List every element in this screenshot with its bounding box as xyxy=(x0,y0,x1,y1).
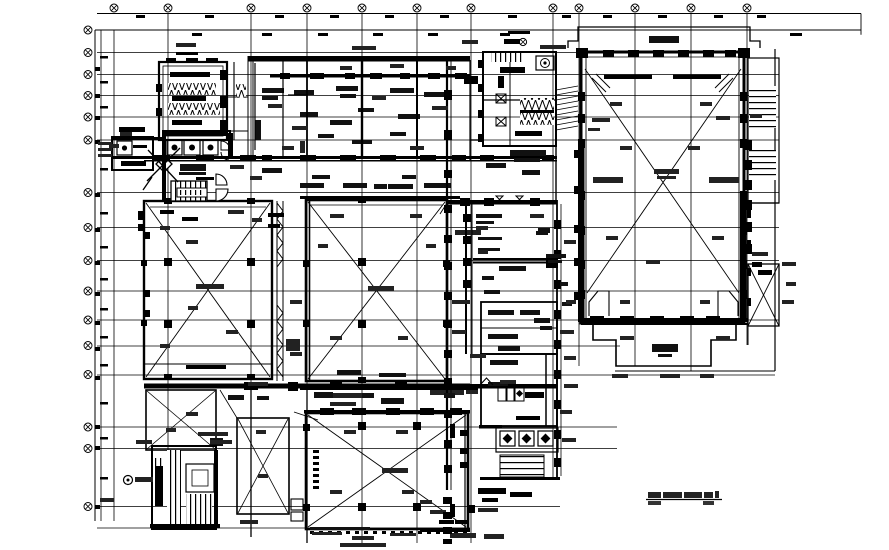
bay below hall xyxy=(593,325,736,366)
label boxes in corridor rooms xyxy=(255,86,444,144)
heavy wall band y156-163 xyxy=(144,155,557,162)
left margin mid dashes xyxy=(100,56,108,480)
hall small labels xyxy=(588,116,739,183)
bottom room top wall band xyxy=(304,408,470,415)
dotted tick row under bottom wall xyxy=(310,531,467,534)
scattered dimension labels upper area xyxy=(98,40,796,547)
bottom room label xyxy=(382,468,408,473)
grid horizontal lines xyxy=(95,30,861,528)
left margin vertical xyxy=(94,30,96,521)
wall x162-166 xyxy=(162,130,166,201)
hall bottom chamfer corners xyxy=(589,291,738,316)
bottom room columns xyxy=(303,422,475,513)
closet row at 498-544,388-401 xyxy=(498,388,524,401)
bottom room bottom dashes xyxy=(420,528,470,532)
hall main walls xyxy=(581,52,744,323)
horizontal double wall y258-263 xyxy=(473,256,558,268)
vertical dotted column x315 xyxy=(313,450,319,489)
left big room walls xyxy=(144,201,272,379)
center big room xyxy=(306,200,447,381)
hall corner braces xyxy=(592,74,733,92)
label box under xyxy=(499,266,526,271)
labels between 163 and 196 xyxy=(262,168,451,189)
X-boxes in core xyxy=(496,94,506,126)
center room columns xyxy=(303,197,450,383)
shaft between rooms xyxy=(272,201,283,381)
stairs right of core (554-578, 86-135) xyxy=(556,86,578,130)
door arcs right of toilets xyxy=(221,141,230,160)
stair hatch below xyxy=(500,455,544,477)
door swings right of stair xyxy=(216,174,228,201)
small boxes row (toilets) at 497-555,428-452 xyxy=(496,428,558,452)
left room X cross xyxy=(146,203,270,377)
left small stair block at 168-207,170-196 xyxy=(171,181,207,201)
fan symbol xyxy=(536,56,554,70)
hall wall column blobs xyxy=(578,92,747,299)
center room X cross xyxy=(308,202,445,379)
hall outer top outline with notches xyxy=(568,27,760,48)
toilet row under block xyxy=(164,131,230,158)
grid circle markers top xyxy=(110,4,751,12)
annex stair rungs xyxy=(749,86,776,128)
left room label xyxy=(196,284,224,289)
left room column squares xyxy=(141,198,284,380)
wall band y196-201 under labels xyxy=(300,196,460,199)
internal walls of top building xyxy=(255,61,417,156)
heavier grid-wall segments bottom xyxy=(251,384,307,543)
hall left/right wall dense strips xyxy=(574,140,751,322)
right wall of middle column xyxy=(557,200,561,480)
title text bottom right xyxy=(646,491,722,505)
walls around left annex xyxy=(112,137,165,159)
door bowties on top wall xyxy=(496,196,523,203)
bottom-left elevator block xyxy=(152,446,216,529)
door swing diagonal at 440-446,203-214 xyxy=(440,203,447,214)
corridor inner details: door/window blobs on inner wall xyxy=(280,73,467,79)
extra small text labels for density xyxy=(160,64,724,494)
X mark near 160,162 xyxy=(143,148,180,190)
connector between stair block and corridor xyxy=(227,62,248,140)
left margin tick marks xyxy=(95,67,100,509)
small X room 1 (left) xyxy=(146,390,216,450)
top wall xyxy=(248,56,470,78)
small left annex rooms xyxy=(112,137,153,170)
toilet cells xyxy=(167,140,218,155)
center room labels xyxy=(322,230,481,406)
right wall inner bars bottom room xyxy=(439,424,469,524)
corridor band labels between center rooms xyxy=(314,370,455,404)
top sub-line and tick dashes xyxy=(97,13,861,15)
left room outside protrusions xyxy=(138,211,150,317)
hall top label box xyxy=(649,36,679,43)
bottom-center big room xyxy=(306,413,468,529)
core area walls to hall xyxy=(470,52,556,200)
annex wall blobs xyxy=(744,140,772,275)
annex X-braced box bottom xyxy=(748,264,779,326)
stair zigzag rows xyxy=(168,83,216,95)
bottom-center room X xyxy=(308,415,466,527)
corner boxes left of bottom room xyxy=(291,499,303,521)
hall bottom wall heavy xyxy=(578,316,748,325)
room stub lines + labels xyxy=(476,214,548,251)
survey circle symbol left bottom xyxy=(124,476,133,485)
left-of-hall cluster marks xyxy=(534,228,572,330)
inner vertical wall 465-473 xyxy=(466,204,472,354)
corridor band between center rooms y384-410 xyxy=(144,382,557,391)
grid circle markers left xyxy=(84,26,92,511)
hall corner blobs top xyxy=(576,48,750,58)
small X room bottom-left of center xyxy=(237,418,289,514)
hall dash rows y74-79 xyxy=(604,75,721,80)
labels near entry xyxy=(179,164,206,175)
hall X cross xyxy=(585,69,741,293)
bottom-left blobs middle column xyxy=(443,497,469,544)
lines below annex xyxy=(615,326,775,371)
core lower labels xyxy=(486,150,546,175)
grid vertical lines xyxy=(114,13,747,543)
right annex of hall xyxy=(748,49,779,371)
